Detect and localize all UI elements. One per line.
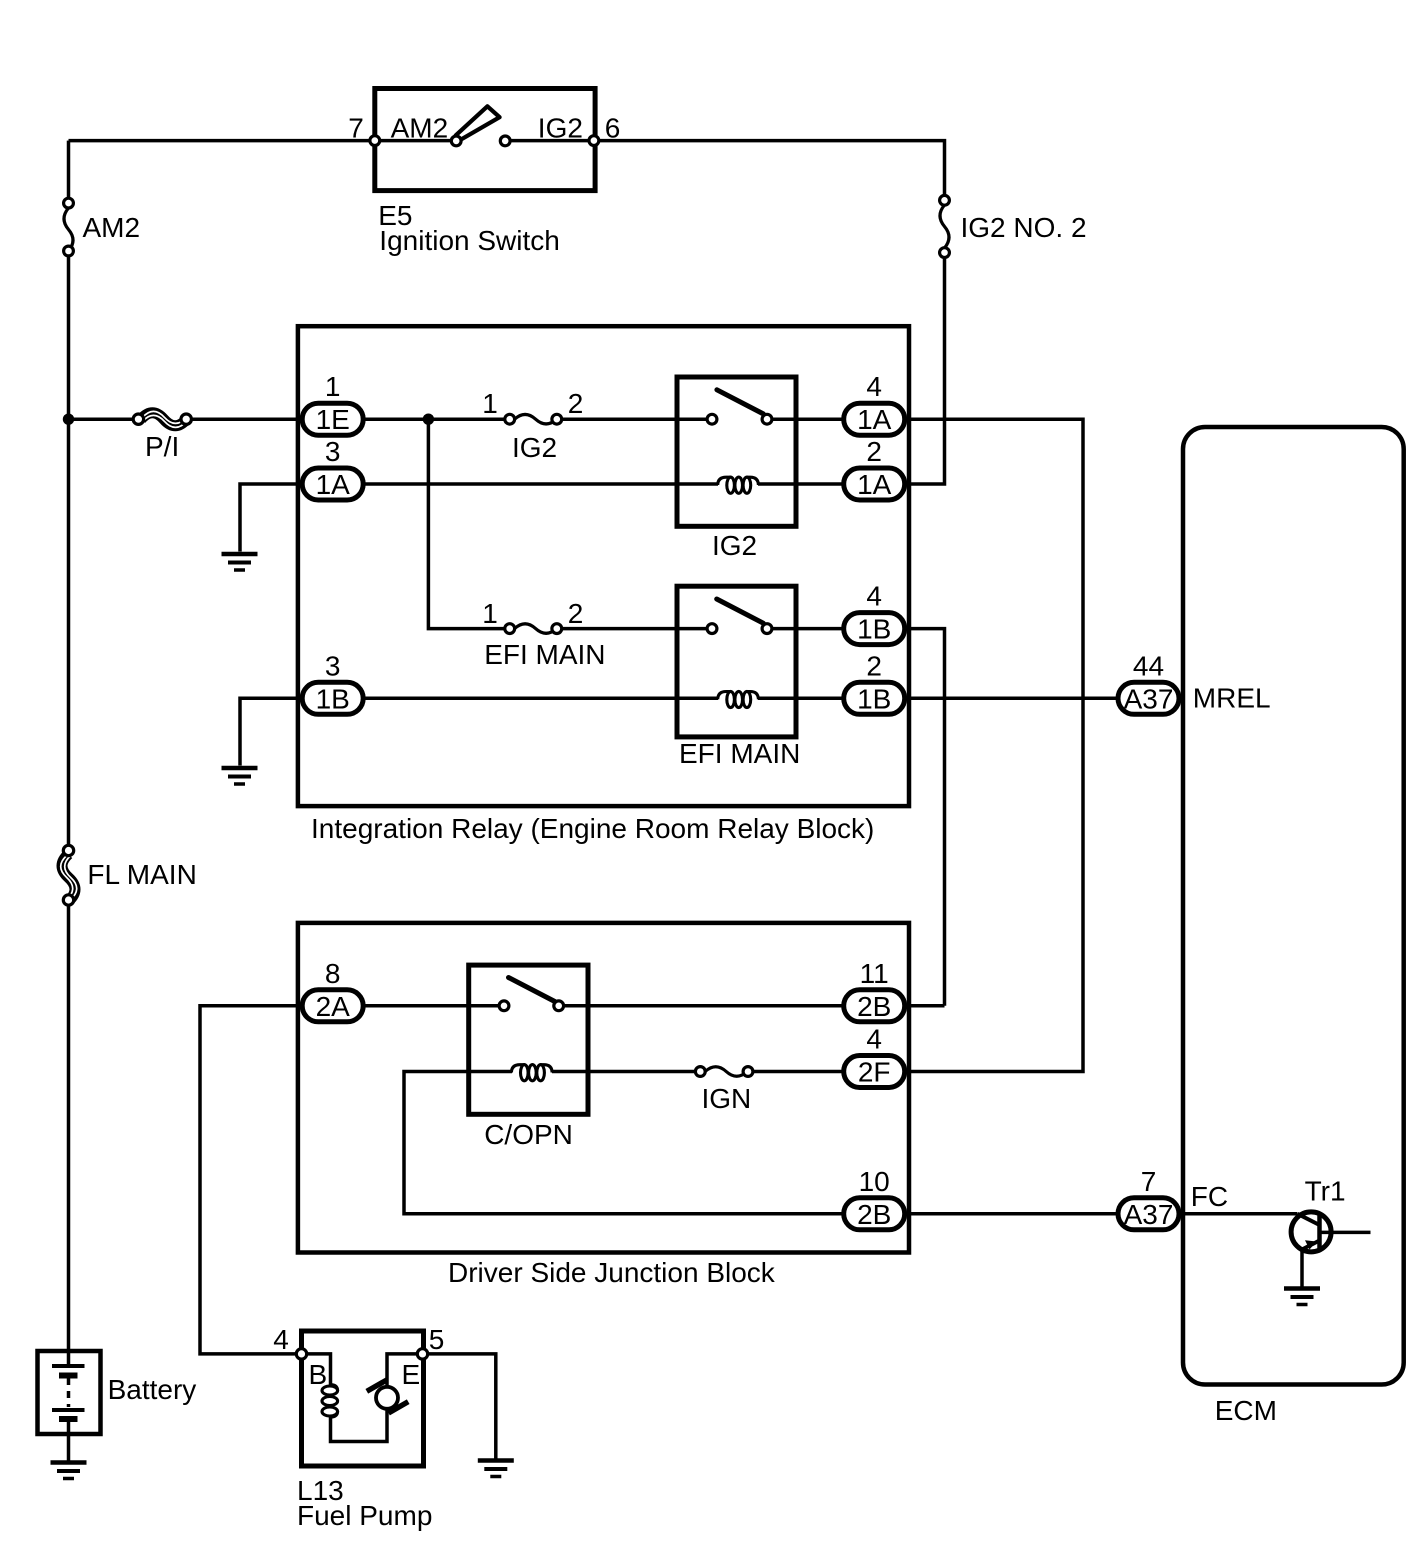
wire junction vertical xyxy=(428,419,506,628)
svg-text:IG2: IG2 xyxy=(512,432,557,463)
wire coil to motor xyxy=(331,1408,388,1442)
svg-text:1A: 1A xyxy=(857,404,892,435)
wire coil row EFI xyxy=(363,697,718,701)
fuel pump L13 box xyxy=(302,1331,424,1466)
pin 1B (2) xyxy=(844,650,905,714)
wire left main vertical upper xyxy=(67,141,71,198)
svg-text:44: 44 xyxy=(1133,650,1164,681)
pin 1E (1) xyxy=(302,371,363,435)
svg-text:E: E xyxy=(402,1359,421,1390)
svg-text:4: 4 xyxy=(866,1024,882,1055)
svg-text:Ignition Switch: Ignition Switch xyxy=(379,225,560,256)
wire pin 1B2 to A37 MREL xyxy=(905,697,1118,701)
relay IG2 box xyxy=(677,377,796,526)
wire pin 1B4 to vertical A xyxy=(905,629,945,1006)
driver side junction block box xyxy=(298,923,909,1253)
svg-text:11: 11 xyxy=(860,958,889,989)
pin 2B (10) xyxy=(844,1166,905,1230)
wire inside ignition switch xyxy=(375,139,456,143)
svg-text:2: 2 xyxy=(568,598,584,629)
svg-text:AM2: AM2 xyxy=(391,112,449,143)
relay IG2 contact xyxy=(707,390,772,424)
pin 2B (11) xyxy=(844,958,905,1022)
svg-text:1B: 1B xyxy=(857,614,891,645)
svg-text:4: 4 xyxy=(866,371,882,402)
wire pin 1A4 right to vertical B xyxy=(905,419,1083,1071)
svg-text:Driver Side Junction Block: Driver Side Junction Block xyxy=(448,1257,776,1288)
contact IG2 circle xyxy=(500,136,510,146)
wire 2A to C/OPN contact xyxy=(363,1004,504,1008)
wire EFI contact to pin 1B4 xyxy=(767,627,844,631)
pin 1A (4) xyxy=(844,371,905,435)
wire left main vertical middle xyxy=(67,257,71,846)
wire 1E to IG2 fuse xyxy=(363,417,506,421)
svg-text:1: 1 xyxy=(325,371,341,402)
wire pump pin4 to coil xyxy=(307,1354,331,1386)
pin 1A (3) xyxy=(302,436,363,500)
wire ignition switch pin6 to IG2 NO.2 column xyxy=(594,141,945,196)
svg-text:1A: 1A xyxy=(316,469,351,500)
fuse EFI MAIN xyxy=(505,624,562,634)
contact AM2 circle xyxy=(451,136,461,146)
wire 2B11 to vertical A xyxy=(905,1004,945,1008)
relay EFI MAIN box xyxy=(677,586,796,737)
wire ground stub 1B3 xyxy=(240,698,302,765)
relay C/OPN box xyxy=(469,965,588,1114)
wire 2A feed from fuel pump column xyxy=(200,1006,302,1354)
fusible link FL MAIN xyxy=(61,845,77,905)
wire P/I to 1E xyxy=(190,417,302,421)
svg-text:5: 5 xyxy=(429,1324,445,1355)
svg-text:2: 2 xyxy=(866,436,882,467)
WIRES-MIDDLE xyxy=(69,258,1119,1072)
fuse IGN xyxy=(695,1067,753,1077)
pump pin 4 circle xyxy=(296,1349,306,1359)
svg-text:1A: 1A xyxy=(857,469,892,500)
battery cells xyxy=(52,1366,85,1419)
wire C/OPN contact to 2B11 xyxy=(559,1004,844,1008)
fuse IG2 xyxy=(505,414,562,424)
wire P/I row left xyxy=(69,417,135,421)
svg-text:1: 1 xyxy=(482,598,498,629)
wire coil C/OPN left branch xyxy=(404,1072,844,1214)
svg-text:2B: 2B xyxy=(857,991,891,1022)
svg-text:1: 1 xyxy=(482,388,498,419)
relay EFI contact xyxy=(707,599,772,633)
svg-text:Fuel Pump: Fuel Pump xyxy=(297,1500,432,1531)
svg-text:1E: 1E xyxy=(316,404,350,435)
svg-text:A37: A37 xyxy=(1124,1199,1174,1230)
svg-text:2B: 2B xyxy=(857,1199,891,1230)
wire left main vertical lower xyxy=(67,906,71,1367)
svg-text:AM2: AM2 xyxy=(83,212,141,243)
ECM box xyxy=(1183,427,1404,1385)
svg-text:P/I: P/I xyxy=(145,431,179,462)
svg-text:7: 7 xyxy=(348,112,364,143)
node junction dot left xyxy=(63,414,74,425)
svg-text:FL MAIN: FL MAIN xyxy=(87,859,196,890)
svg-text:Battery: Battery xyxy=(108,1374,197,1405)
pin 2A (8) xyxy=(302,958,363,1022)
svg-text:2: 2 xyxy=(866,650,882,681)
svg-text:8: 8 xyxy=(325,958,341,989)
wire motor to pin5 xyxy=(387,1354,418,1388)
svg-text:MREL: MREL xyxy=(1193,683,1271,714)
svg-text:C/OPN: C/OPN xyxy=(484,1119,573,1150)
pump coil winding xyxy=(322,1385,338,1418)
WIRES-LOWER xyxy=(200,1006,1118,1354)
integration relay block box xyxy=(298,326,909,806)
wire 2B10 to A37 FC xyxy=(905,1212,1118,1216)
svg-text:1B: 1B xyxy=(857,683,891,714)
relay IG2 coil xyxy=(718,477,759,493)
wire coil row IG2 xyxy=(363,482,718,486)
wire IG2 fuse to contact xyxy=(561,417,712,421)
svg-text:2F: 2F xyxy=(858,1057,891,1088)
wire EFI fuse to contact xyxy=(561,627,712,631)
pin 6 circle xyxy=(589,136,599,146)
node junction dot 1E xyxy=(423,414,434,425)
wire pump pin5 to ground xyxy=(427,1354,496,1460)
fuse AM2 xyxy=(64,198,74,256)
battery box xyxy=(38,1351,101,1434)
pin 1A (2) xyxy=(844,436,905,500)
svg-text:Integration Relay (Engine Room: Integration Relay (Engine Room Relay Blo… xyxy=(311,813,874,844)
svg-text:Tr1: Tr1 xyxy=(1305,1176,1346,1207)
ground relay 1A3 xyxy=(222,554,258,570)
ground battery xyxy=(51,1463,87,1479)
ignition switch E5 box xyxy=(375,89,595,191)
svg-text:B: B xyxy=(309,1359,328,1390)
svg-text:IG2: IG2 xyxy=(538,112,583,143)
svg-text:EFI MAIN: EFI MAIN xyxy=(484,639,605,670)
ground transistor xyxy=(1284,1289,1320,1305)
wire coil C/OPN to IGN fuse xyxy=(552,1070,696,1074)
svg-text:FC: FC xyxy=(1191,1181,1228,1212)
pin 1B (4) xyxy=(844,581,905,645)
svg-text:4: 4 xyxy=(273,1324,289,1355)
svg-text:1B: 1B xyxy=(316,683,350,714)
wire battery negative to ground xyxy=(67,1419,71,1462)
ground fuel pump xyxy=(478,1461,514,1477)
ignition switch blade xyxy=(456,106,500,140)
relay EFI coil xyxy=(718,691,759,707)
svg-text:10: 10 xyxy=(859,1166,890,1197)
pump motor xyxy=(367,1380,408,1413)
pin 2F (4) xyxy=(844,1024,905,1088)
fusible link P/I xyxy=(133,411,191,427)
svg-text:4: 4 xyxy=(866,581,882,612)
pump pin 5 circle xyxy=(417,1349,427,1359)
ground relay 1B3 xyxy=(222,768,258,784)
svg-text:IG2 NO. 2: IG2 NO. 2 xyxy=(961,212,1087,243)
pin 7 circle xyxy=(370,136,380,146)
svg-text:EFI MAIN: EFI MAIN xyxy=(679,738,800,769)
svg-text:2A: 2A xyxy=(316,991,351,1022)
relay C/OPN contact xyxy=(499,978,563,1011)
svg-text:7: 7 xyxy=(1141,1166,1157,1197)
svg-text:3: 3 xyxy=(325,650,341,681)
wire IGN fuse to 2F xyxy=(753,1070,845,1074)
svg-text:2: 2 xyxy=(568,388,584,419)
svg-text:A37: A37 xyxy=(1124,683,1174,714)
wire battery feed top horizontal xyxy=(69,139,375,143)
svg-text:3: 3 xyxy=(325,436,341,467)
svg-text:IG2: IG2 xyxy=(712,530,757,561)
svg-text:ECM: ECM xyxy=(1215,1395,1277,1426)
WIRES-TOP xyxy=(69,141,945,1366)
wire ground stub 1A3 xyxy=(240,484,302,552)
fuse IG2 NO.2 xyxy=(940,195,950,257)
relay C/OPN coil xyxy=(511,1065,552,1081)
transistor Tr1 xyxy=(1181,1212,1371,1289)
pin 1B (3) xyxy=(302,650,363,714)
wire pin 1A2 to vertical A up xyxy=(905,258,945,484)
svg-text:6: 6 xyxy=(605,112,621,143)
pin A37 MREL (44) xyxy=(1118,650,1179,714)
svg-text:IGN: IGN xyxy=(702,1083,752,1114)
wire IG2 contact to pin 1A4 xyxy=(767,417,844,421)
pin A37 FC (7) xyxy=(1118,1166,1179,1230)
